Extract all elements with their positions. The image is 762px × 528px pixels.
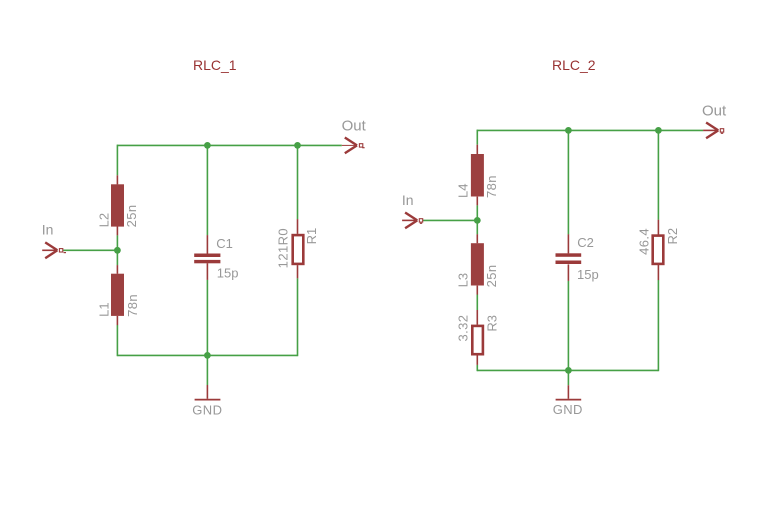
svg-text:25n: 25n [484,265,499,288]
svg-text:46.4: 46.4 [636,228,651,255]
svg-text:C1: C1 [216,236,233,251]
svg-text:3.32: 3.32 [455,315,470,342]
svg-text:R3: R3 [485,315,500,332]
svg-text:78n: 78n [484,175,499,198]
svg-text:In: In [402,192,414,208]
svg-text:L4: L4 [456,184,471,198]
svg-text:R2: R2 [665,228,680,245]
svg-text:In: In [42,222,54,238]
svg-text:15p: 15p [217,266,239,281]
svg-text:GND: GND [553,402,583,417]
svg-text:R1: R1 [304,228,319,245]
svg-text:25n: 25n [124,205,139,228]
svg-text:GND: GND [192,403,222,418]
svg-text:78n: 78n [125,294,140,317]
svg-text:L1: L1 [97,302,112,316]
svg-text:Out: Out [342,118,367,135]
svg-text:RLC_1: RLC_1 [193,57,237,73]
svg-text:121R0: 121R0 [275,228,290,268]
svg-text:15p: 15p [577,267,599,282]
svg-text:C2: C2 [577,235,594,250]
svg-text:L2: L2 [96,213,111,227]
svg-text:RLC_2: RLC_2 [552,57,596,73]
svg-text:L3: L3 [456,273,471,287]
svg-text:Out: Out [702,102,727,119]
